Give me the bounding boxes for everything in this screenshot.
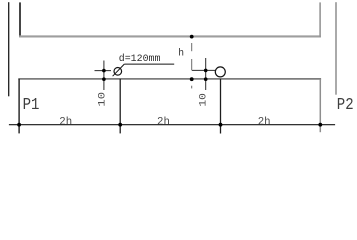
svg-text:P1: P1 bbox=[23, 96, 40, 115]
joint line 2 bbox=[220, 79, 222, 134]
svg-text:10: 10 bbox=[197, 93, 209, 107]
dim 10 right: vertical line bbox=[205, 58, 207, 90]
dim 10 left: upper dot bbox=[102, 69, 106, 73]
dim 10 left: witness line bbox=[95, 70, 112, 72]
svg-text:2h: 2h bbox=[157, 116, 170, 128]
svg-text:d=120mm: d=120mm bbox=[119, 53, 161, 64]
leader horizontal shoulder bbox=[124, 63, 174, 65]
svg-text:2h: 2h bbox=[258, 116, 271, 128]
dowel bar circle 1 bbox=[114, 68, 122, 76]
dim 10 right: upper dot bbox=[204, 69, 208, 73]
slab left edge bbox=[18, 79, 20, 133]
dim 10 left: vertical line bbox=[103, 61, 105, 91]
leader slash through circle 1 bbox=[113, 64, 125, 76]
pier outline left riser bbox=[19, 2, 21, 37]
pier outline right riser bbox=[319, 2, 321, 37]
slab top edge bbox=[18, 78, 321, 80]
dim 10 right: lower dot bbox=[204, 77, 208, 81]
slab right edge bbox=[319, 79, 321, 132]
bottom dimension line bbox=[9, 124, 335, 126]
dim h: upper dot bbox=[190, 35, 194, 39]
dimension dot at slab right edge bbox=[318, 123, 322, 127]
dimension dot at joint 1 bbox=[118, 123, 122, 127]
dowel bar circle 2 bbox=[215, 67, 225, 77]
joint line 1 bbox=[119, 79, 121, 133]
svg-text:2h: 2h bbox=[59, 116, 72, 128]
dim h: dashed reference line bbox=[191, 43, 193, 51]
dim 10 right: witness line bbox=[192, 69, 216, 71]
dim 10 left: lower dot bbox=[102, 77, 106, 81]
svg-text:P2: P2 bbox=[337, 96, 354, 115]
grid line P2 (right long vertical) bbox=[335, 2, 337, 95]
svg-text:h: h bbox=[178, 48, 184, 60]
pier outline top horizontal bbox=[19, 35, 321, 37]
dim h: lower dot bbox=[190, 77, 194, 81]
grid line P1 (left long vertical) bbox=[8, 2, 10, 96]
svg-text:10: 10 bbox=[96, 92, 108, 107]
dimension dot at joint 2 bbox=[219, 123, 223, 127]
dimension dot at slab left edge bbox=[17, 123, 21, 127]
